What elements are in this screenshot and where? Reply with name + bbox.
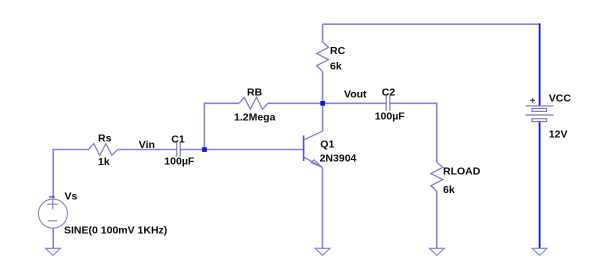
wire RB left with corner down to node	[204, 103, 239, 149]
node label Vout	[344, 89, 367, 101]
ground (below RLOAD)	[429, 248, 444, 255]
svg-text:C2: C2	[382, 86, 396, 98]
svg-text:SINE(0 100mV 1KHz): SINE(0 100mV 1KHz)	[64, 225, 167, 237]
wire C2 to RLOAD corner	[390, 103, 437, 162]
battery VCC	[526, 98, 554, 122]
label Vs	[65, 190, 78, 202]
svg-text:Q1: Q1	[320, 138, 334, 150]
node label Vin	[139, 139, 155, 151]
wire Q1 emitter to ground	[322, 168, 324, 249]
label VCC	[549, 93, 572, 105]
label RB	[247, 86, 263, 98]
wire RLOAD bottom lead	[436, 191, 438, 248]
value 12V (VCC)	[549, 129, 568, 141]
svg-text:1.2Mega: 1.2Mega	[234, 111, 276, 123]
value 1k (Rs)	[98, 156, 110, 168]
wire Vout segment	[323, 102, 387, 104]
value SINE(0 100mV 1KHz) (Vs)	[64, 225, 167, 237]
capacitor C1	[177, 142, 180, 156]
value 100uF (C2)	[375, 111, 406, 123]
value 1.2Mega (RB)	[234, 111, 276, 123]
resistor RLOAD	[431, 162, 443, 191]
ground (below VCC battery)	[532, 248, 547, 255]
value 6k (RLOAD)	[443, 184, 455, 196]
resistor Rs	[89, 144, 118, 156]
svg-text:Vin: Vin	[139, 139, 155, 151]
label Rs	[98, 132, 112, 144]
wire C1 to Q1 base	[180, 149, 303, 151]
svg-text:6k: 6k	[443, 184, 455, 196]
value 100uF (C1)	[164, 155, 195, 167]
node Vout junction dot	[320, 101, 325, 106]
svg-text:Rs: Rs	[98, 132, 112, 144]
wire RC bottom lead	[322, 72, 324, 104]
resistor RC	[317, 42, 329, 71]
resistor RB	[239, 97, 268, 109]
svg-text:100µF: 100µF	[164, 155, 195, 167]
wire VCC rail lower	[539, 122, 541, 249]
voltage source Vs	[38, 197, 67, 228]
svg-text:RLOAD: RLOAD	[443, 165, 481, 177]
label RLOAD	[443, 165, 481, 177]
wire top rail	[323, 23, 540, 25]
svg-text:6k: 6k	[330, 61, 342, 73]
capacitor C2	[386, 96, 390, 111]
label RC	[330, 45, 346, 57]
wire Q1 collector vertical	[322, 103, 324, 131]
svg-text:100µF: 100µF	[375, 111, 406, 123]
wire main left (Vs corner to Rs)	[53, 150, 88, 200]
wire Vs bottom to ground	[52, 228, 54, 248]
label Q1	[320, 138, 334, 150]
svg-text:1k: 1k	[98, 156, 110, 168]
svg-text:C1: C1	[171, 133, 185, 145]
svg-text:Vs: Vs	[65, 190, 78, 202]
svg-text:2N3904: 2N3904	[320, 152, 357, 164]
value 6k (RC)	[330, 61, 342, 73]
wire RB right segment	[268, 102, 323, 104]
svg-text:RB: RB	[247, 86, 263, 98]
transistor Q1	[304, 131, 323, 167]
svg-text:Vout: Vout	[344, 89, 367, 101]
svg-text:VCC: VCC	[549, 93, 572, 105]
ground (below Q1 emitter)	[315, 248, 330, 255]
value 2N3904 (Q1)	[320, 152, 357, 164]
node Vin junction dot	[202, 147, 207, 152]
ground (below Vs)	[46, 248, 61, 255]
label C2	[382, 86, 396, 98]
label C1	[171, 133, 185, 145]
wire Vin segment (Rs to C1)	[118, 149, 177, 151]
wire RC top lead	[322, 24, 324, 42]
wire VCC rail upper	[539, 23, 541, 106]
svg-text:RC: RC	[330, 45, 346, 57]
svg-text:12V: 12V	[549, 129, 568, 141]
